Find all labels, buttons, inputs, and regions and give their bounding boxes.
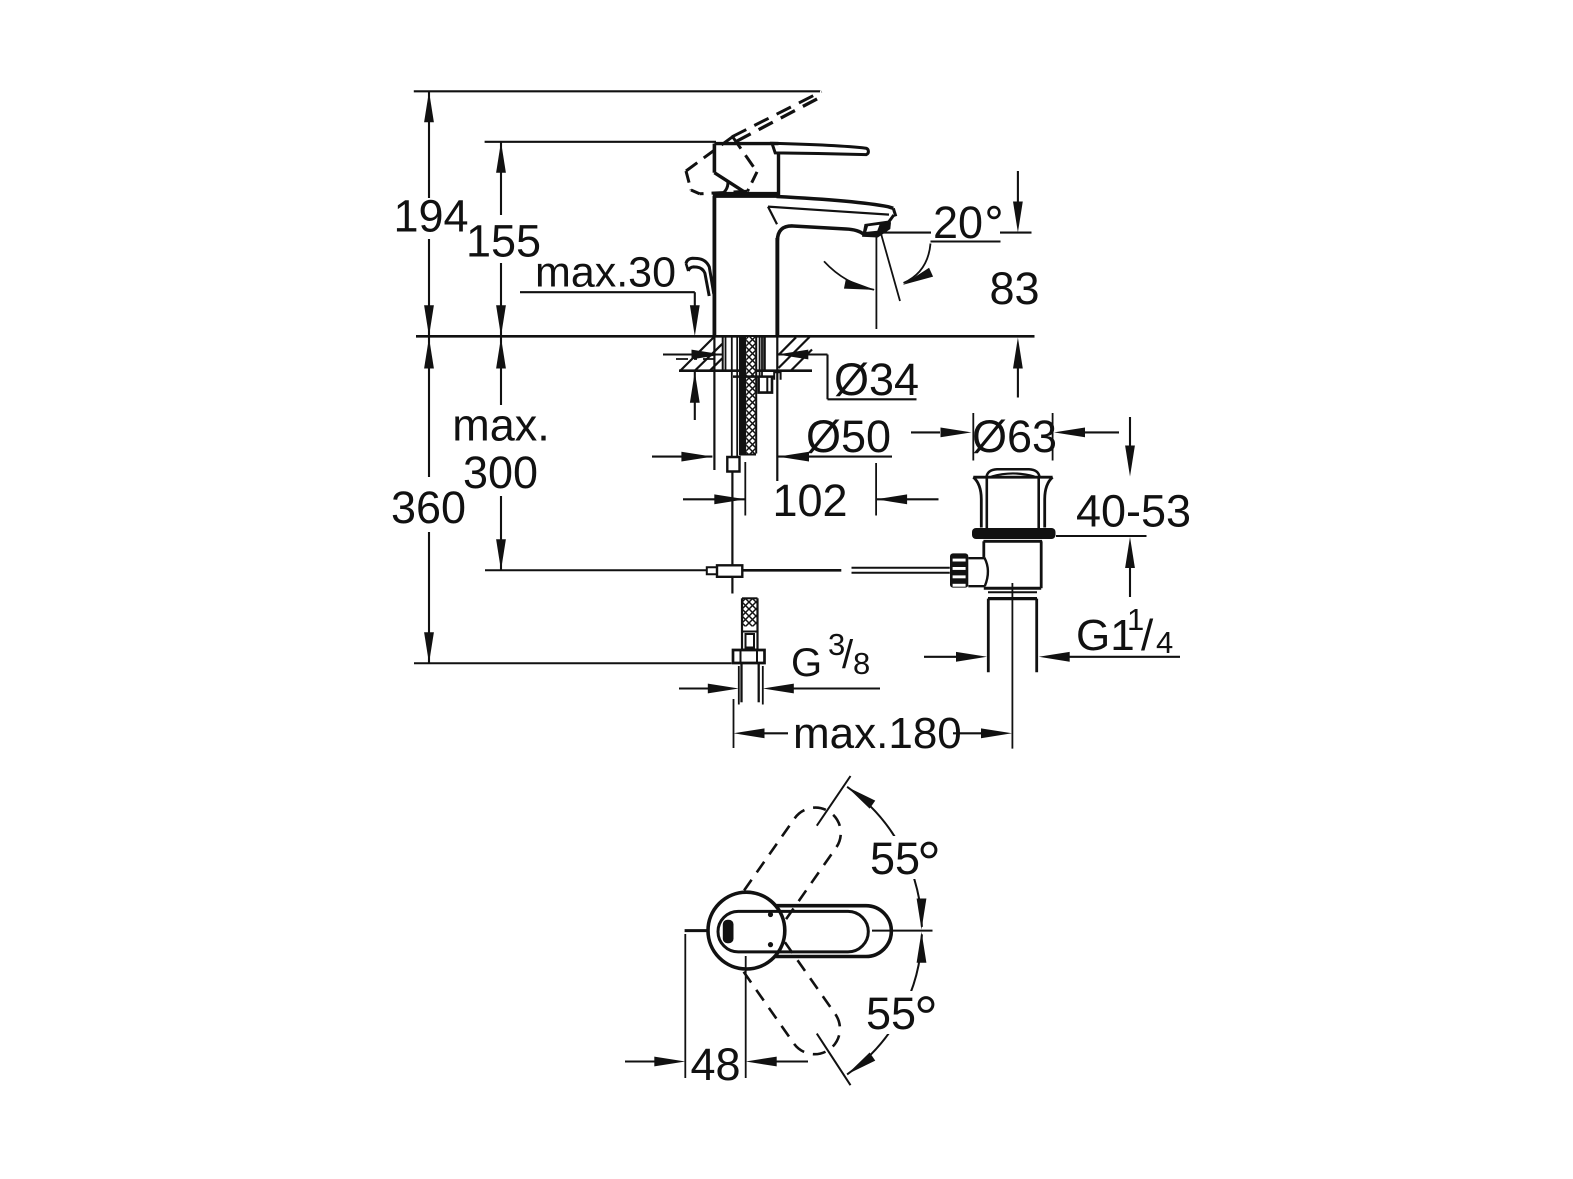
svg-text:G1: G1 xyxy=(1076,611,1135,660)
svg-text:Ø50: Ø50 xyxy=(806,411,891,462)
svg-text:83: 83 xyxy=(989,263,1039,314)
svg-text:300: 300 xyxy=(463,447,538,498)
svg-text:8: 8 xyxy=(853,646,870,681)
svg-text:360: 360 xyxy=(391,482,466,533)
svg-text:194: 194 xyxy=(393,191,468,242)
svg-text:4: 4 xyxy=(1156,625,1173,660)
svg-text:Ø34: Ø34 xyxy=(834,354,919,405)
svg-text:/: / xyxy=(1141,611,1154,660)
svg-text:40-53: 40-53 xyxy=(1076,486,1191,537)
svg-text:20: 20 xyxy=(933,197,983,248)
svg-text:48: 48 xyxy=(690,1039,740,1090)
svg-text:155: 155 xyxy=(466,216,541,267)
svg-text:max.: max. xyxy=(452,400,550,451)
svg-text:Ø63: Ø63 xyxy=(972,411,1057,462)
svg-text:max.30: max.30 xyxy=(535,249,676,297)
svg-text:G: G xyxy=(791,641,822,685)
svg-text:max.180: max.180 xyxy=(793,709,962,758)
svg-text:55: 55 xyxy=(870,833,920,884)
svg-text:102: 102 xyxy=(772,475,847,526)
svg-text:55: 55 xyxy=(866,988,916,1039)
